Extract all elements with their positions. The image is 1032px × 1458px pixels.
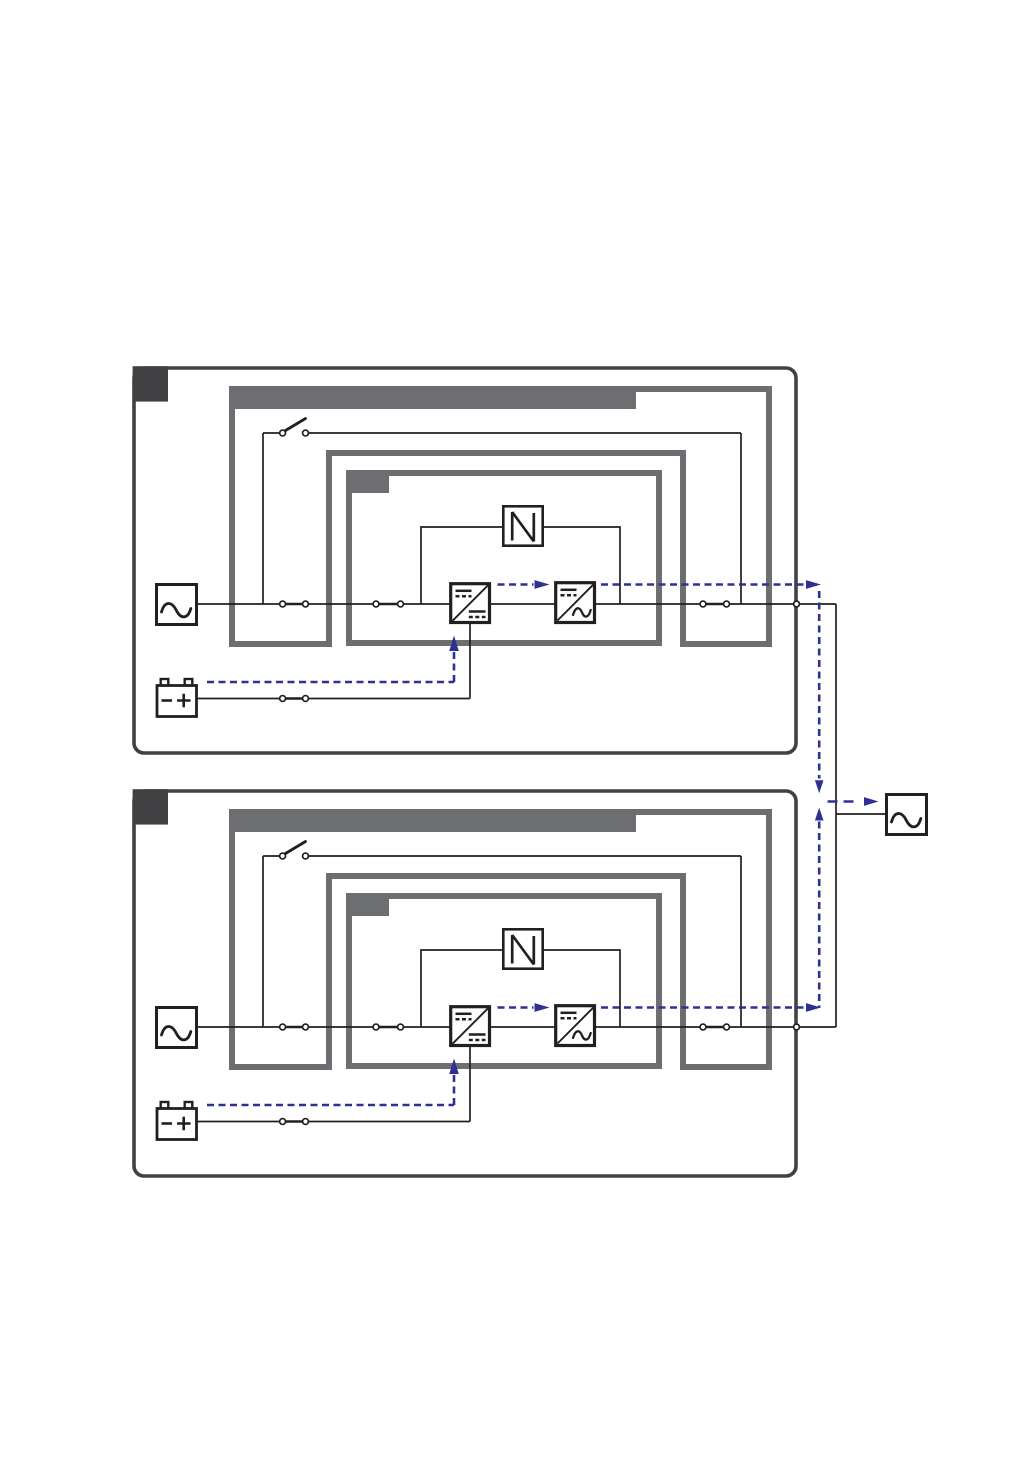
UPS1 bypass-path frame inner-left vertical [326, 450, 332, 647]
wire: UPS1 bypass line left [263, 432, 280, 434]
wire: UPS1 battery riser to rectifier [469, 623, 471, 699]
flow arrow into UPS1 inverter (right) [535, 580, 550, 589]
wire: UPS1 inverter output to node [595, 603, 836, 605]
UPS1 bypass-path frame top segment [229, 386, 772, 392]
flow: UPS2 inverter output path [601, 1006, 805, 1009]
wire: UPS2 static-switch branch left riser [421, 950, 503, 1027]
wire: paralleling output bus vertical [835, 604, 837, 1027]
UPS2 bypass-path header bar [229, 809, 636, 832]
flow: UPS1 output down the bus [818, 591, 821, 779]
flow arrow up to load junction [815, 808, 824, 821]
rectifier/charger U2A (AC-DC converter) [451, 1007, 490, 1046]
load (output AC) [887, 795, 927, 835]
switch Q13 (output breaker, closed) [700, 601, 729, 607]
UPS1 bypass-path frame inner top segment [326, 450, 686, 456]
UPS1 bypass-path frame bottom-left segment [229, 641, 332, 647]
wire: UPS1 mains input to rectifier [198, 603, 450, 605]
rectifier/charger U1A (AC-DC converter) [451, 584, 490, 623]
switch Q11 (input breaker, closed) [280, 601, 309, 607]
wire: UPS1 static-switch branch left riser [421, 527, 503, 604]
inverter U1B (DC-AC) [556, 583, 595, 623]
UPS1 bypass-path frame left segment [229, 386, 235, 647]
UPS1 cabinet label square [133, 366, 168, 401]
UPS2 bypass-path frame top segment [229, 809, 772, 815]
flow: UPS2 DC link path [498, 1006, 534, 1009]
wire: UPS2 inverter output to node [595, 1026, 836, 1028]
wire: UPS2 bypass line left [263, 855, 280, 857]
flow arrow down to load junction [815, 780, 824, 793]
switch Q1B (battery breaker, closed) [280, 696, 309, 702]
ac source G1 (mains input) [157, 585, 197, 625]
wire: UPS2 static-switch branch right drop [543, 950, 620, 1027]
battery B2 [157, 1102, 197, 1140]
wire: UPS2 mains input to rectifier [198, 1026, 450, 1028]
flow arrow into UPS2 rectifier (up) [449, 1059, 459, 1075]
static bypass switch N2 [503, 929, 542, 968]
wire: UPS1 static-switch branch right drop [543, 527, 620, 604]
switch Q23 (output breaker, closed) [700, 1024, 729, 1030]
UPS2 double-conversion label tab [346, 893, 389, 916]
flow: UPS1 inverter output path [601, 583, 805, 586]
UPS1 bypass-path frame bottom-right segment [680, 641, 772, 647]
UPS2 bypass-path frame bottom-left segment [229, 1064, 332, 1070]
flow: UPS1 DC link path [498, 583, 534, 586]
UPS2 cabinet label square [133, 789, 168, 824]
UPS1 double-conversion label tab [346, 470, 389, 493]
wire: UPS2 battery riser to rectifier [469, 1046, 471, 1122]
ac source G2 (mains input) [157, 1008, 197, 1048]
flow: UPS1 battery discharge path [207, 681, 454, 684]
wire: UPS1 bypass line right [308, 432, 741, 434]
UPS2 bypass-path frame inner-left vertical [326, 873, 332, 1070]
UPS2 double-conversion frame [349, 896, 659, 1066]
wire: UPS1 bypass drop to output [740, 433, 742, 604]
flow arrow into UPS2 inverter (right) [535, 1003, 550, 1012]
wire: UPS1 bypass riser [262, 433, 264, 604]
wire: UPS2 battery line [197, 1121, 470, 1123]
flow arrow into UPS1 rectifier (up) [449, 636, 459, 652]
battery B1 [157, 679, 197, 717]
UPS2 bypass-path frame inner top segment [326, 873, 686, 879]
wire: UPS2 bypass line right [308, 855, 741, 857]
wire: UPS2 bypass drop to output [740, 856, 742, 1027]
node: UPS2 output terminal [794, 1024, 800, 1030]
UPS1 bypass-path frame right segment [766, 386, 772, 647]
flow: combined output to load [828, 800, 859, 803]
UPS2 bypass-path frame right segment [766, 809, 772, 1070]
static bypass switch N1 [503, 506, 542, 545]
switch Q12 (rectifier input, closed) [373, 601, 403, 607]
switch Q22 (rectifier input, closed) [373, 1024, 403, 1030]
UPS2 bypass-path frame inner-right vertical [680, 873, 686, 1070]
flow: UPS2 battery path riser [453, 1073, 456, 1105]
wire: UPS1 rectifier to inverter DC link [490, 603, 555, 605]
switch Q2B (battery breaker, closed) [280, 1119, 309, 1125]
UPS1 cabinet enclosure [134, 368, 796, 753]
wire: UPS2 bypass riser [262, 856, 264, 1027]
flow: UPS2 output up the bus [818, 822, 821, 1008]
UPS2 bypass-path frame bottom-right segment [680, 1064, 772, 1070]
UPS1 bypass-path header bar [229, 386, 636, 409]
flow arrow into load [864, 797, 879, 806]
UPS1 double-conversion frame [349, 473, 659, 643]
flow: UPS2 battery discharge path [207, 1104, 454, 1107]
switch Q21 (input breaker, closed) [280, 1024, 309, 1030]
node: UPS1 output terminal [794, 601, 800, 607]
flow: UPS1 battery path riser [453, 650, 456, 682]
flow arrow out of UPS2 (right) [806, 1003, 821, 1012]
wire: bus to load [836, 813, 886, 815]
flow arrow out of UPS1 (right) [806, 580, 821, 589]
switch Q1M (manual bypass, open) [280, 419, 309, 436]
UPS1 bypass-path frame inner-right vertical [680, 450, 686, 647]
inverter U2B (DC-AC) [556, 1006, 595, 1046]
wire: UPS2 rectifier to inverter DC link [490, 1026, 555, 1028]
UPS2 cabinet enclosure [134, 791, 796, 1176]
UPS2 bypass-path frame left segment [229, 809, 235, 1070]
wire: UPS1 battery line [197, 698, 470, 700]
switch Q2M (manual bypass, open) [280, 842, 309, 859]
